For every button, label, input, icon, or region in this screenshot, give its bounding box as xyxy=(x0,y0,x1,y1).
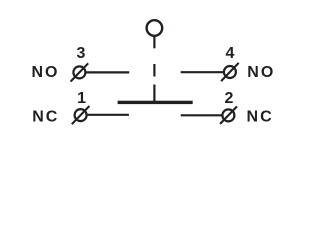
svg-text:NO: NO xyxy=(32,64,60,81)
svg-text:3: 3 xyxy=(77,45,86,62)
svg-text:NC: NC xyxy=(32,109,59,126)
svg-text:NO: NO xyxy=(247,64,275,81)
svg-text:2: 2 xyxy=(225,90,234,107)
svg-text:4: 4 xyxy=(225,45,234,62)
svg-text:NC: NC xyxy=(247,109,274,126)
svg-text:1: 1 xyxy=(77,90,86,107)
